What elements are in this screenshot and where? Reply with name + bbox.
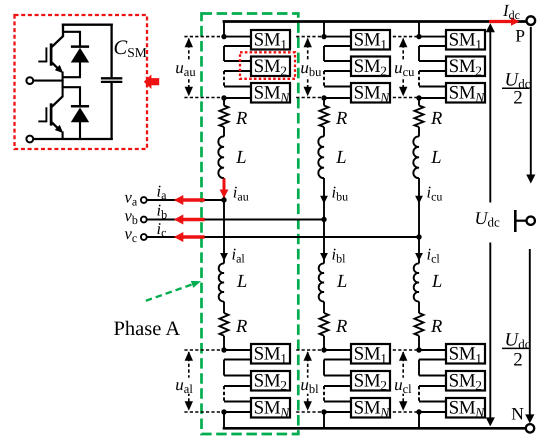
Phase A dashed green frame xyxy=(202,14,299,435)
label u_al xyxy=(175,378,197,394)
label u_bl xyxy=(300,378,322,394)
wire: SM2 terminals arm bu xyxy=(324,60,352,62)
upper half dimension arrow U_dc/2 xyxy=(530,27,532,176)
wire: SM bottom rail xyxy=(33,138,113,140)
node: AC junction phase B xyxy=(321,217,326,222)
diode D1 (upper freewheel diode) xyxy=(63,31,80,33)
terminal P xyxy=(527,16,536,25)
wire: lower leg phase C xyxy=(418,237,420,264)
node: lower arm top junction phase A xyxy=(221,347,226,352)
svg-text:L: L xyxy=(236,272,247,292)
SM block SMN arm bl xyxy=(351,398,390,418)
resistor R lower arm phase B xyxy=(320,313,329,336)
wire: SM1 terminals arm cu xyxy=(419,36,447,38)
inductor L upper arm phase A xyxy=(218,136,224,178)
svg-text:R: R xyxy=(430,317,442,337)
svg-text:R: R xyxy=(235,109,247,129)
node: upper arm top junction phase C xyxy=(416,34,421,39)
inductor L lower arm phase B xyxy=(319,263,324,301)
wire: leg to negative bus phase A xyxy=(223,412,225,429)
wire: SMN terminals arm al xyxy=(224,401,252,403)
SM block SM1 arm cl xyxy=(446,344,485,364)
resistor R lower arm phase C xyxy=(415,313,424,336)
wire: SM2 terminals arm bl xyxy=(324,375,352,377)
wire: leg segment between L and R lower phase C xyxy=(418,302,420,314)
inductor L upper arm phase B xyxy=(318,136,324,178)
resistor R upper arm phase B xyxy=(320,106,329,128)
svg-text:R: R xyxy=(335,317,347,337)
resistor R upper arm phase A xyxy=(220,106,229,128)
phase current arrow i_c (red) xyxy=(174,232,184,242)
SM block SM1 arm bu xyxy=(351,30,390,50)
node: AC junction phase A xyxy=(221,197,226,202)
DC midpoint terminal xyxy=(514,210,517,232)
transistor T2 (lower IGBT) xyxy=(50,103,53,125)
wire: AC line phase C xyxy=(147,236,420,238)
SM block SMN arm bu xyxy=(351,83,390,103)
node: upper arm bottom junction phase A xyxy=(221,95,226,100)
dimension line u_cu xyxy=(393,36,421,38)
SM block SM1 arm bl xyxy=(351,344,390,364)
wire: leg segment between L and R lower phase B xyxy=(323,302,325,314)
wire: AC line phase A xyxy=(147,199,225,201)
svg-text:R: R xyxy=(235,317,247,337)
wire: SM top rail xyxy=(62,24,113,26)
svg-text:L: L xyxy=(336,272,347,292)
resistor R lower arm phase A xyxy=(220,313,229,336)
wire: leg segment between L and R lower phase A xyxy=(223,302,225,314)
wire: SMN terminals arm bl xyxy=(324,401,352,403)
wire: SMN terminals arm cu xyxy=(419,86,447,88)
svg-text:R: R xyxy=(335,109,347,129)
wire: leg to negative bus phase B xyxy=(323,412,325,429)
wire: leg segment to AC node phase B xyxy=(323,178,325,220)
label u_cu xyxy=(394,61,416,77)
wire: SM1 terminals arm cl xyxy=(419,349,447,351)
wire: leg segment above R phase C xyxy=(418,98,420,106)
wire: leg segment between R and L phase A xyxy=(223,127,225,137)
node: upper arm top junction phase A xyxy=(221,34,226,39)
wire: positive DC bus xyxy=(223,20,527,23)
wire: leg segment between R and L phase C xyxy=(418,127,420,137)
svg-text:L: L xyxy=(335,148,346,168)
resistor R upper arm phase C xyxy=(415,106,424,128)
svg-text:2: 2 xyxy=(513,88,523,109)
inductor L lower arm phase A xyxy=(219,263,224,301)
label u_au xyxy=(175,61,197,77)
wire: leg to negative bus phase C xyxy=(418,412,420,429)
SM block SM2 arm cu xyxy=(446,57,485,77)
wire: SM1 terminals arm al xyxy=(224,349,252,351)
arm current arrow i_cl xyxy=(415,253,423,261)
wire: leg segment to lower SM chain phase A xyxy=(223,336,225,350)
svg-text:L: L xyxy=(431,272,442,292)
node: lower arm bottom junction phase C xyxy=(416,409,421,414)
inductor L upper arm phase C xyxy=(413,136,419,178)
wire: upper leg phase C xyxy=(418,21,420,37)
wire: lower leg phase B xyxy=(323,220,325,264)
wire: negative DC bus xyxy=(223,427,526,430)
node: AC junction phase C xyxy=(416,234,421,239)
wire: SM1 terminals arm au xyxy=(224,36,252,38)
red callout arrow to SM2 xyxy=(144,74,159,89)
transistor T1 (upper IGBT) xyxy=(50,43,53,65)
wire: SM2 terminals arm al xyxy=(224,375,252,377)
label u_bu xyxy=(300,61,322,77)
wire: upper leg phase B xyxy=(323,21,325,37)
phase current arrow i_b (red) xyxy=(174,215,184,225)
svg-text:L: L xyxy=(235,148,246,168)
arm current arrow i_bl xyxy=(320,253,328,261)
arm current arrow i_au (red) xyxy=(223,179,226,192)
wire: SM2 terminals arm cl xyxy=(419,375,447,377)
wire: AC line phase B xyxy=(147,219,325,221)
wire: SMN terminals arm au xyxy=(224,86,252,88)
node: lower arm top junction phase B xyxy=(321,347,326,352)
arm current arrow i_al xyxy=(220,253,228,261)
SM block SM2 arm au xyxy=(251,57,290,77)
U_dc dimension line with arrows xyxy=(489,25,491,425)
label u_cl xyxy=(394,378,416,394)
svg-text:N: N xyxy=(511,404,524,424)
node: lower arm top junction phase C xyxy=(416,347,421,352)
SM block SM1 arm cu xyxy=(446,30,485,50)
SM block SMN arm au xyxy=(251,83,290,103)
wire: SM2 terminals arm cu xyxy=(419,60,447,62)
arm current arrow i_bu xyxy=(320,196,328,204)
SM block SM2 arm cl xyxy=(446,371,485,391)
wire: upper leg phase A xyxy=(223,21,225,37)
dimension line u_bu xyxy=(296,36,325,38)
phase current arrow i_a (red) xyxy=(174,195,184,205)
SM block SMN arm cu xyxy=(446,83,485,103)
wire: lower leg phase A xyxy=(223,200,225,264)
dimension line u_cl xyxy=(393,349,421,351)
red dotted highlight frame around SM2 xyxy=(240,52,295,79)
green callout arrow to Phase A frame xyxy=(146,283,196,301)
wire: leg segment to lower SM chain phase B xyxy=(323,336,325,350)
node: upper arm top junction phase B xyxy=(321,34,326,39)
node: upper arm bottom junction phase B xyxy=(321,95,326,100)
wire: SM1 terminals arm bl xyxy=(324,349,352,351)
terminal: SM upper port xyxy=(26,77,33,84)
node: lower arm bottom junction phase A xyxy=(221,409,226,414)
capacitor C_SM xyxy=(110,24,112,78)
wire: leg segment to AC node phase A xyxy=(223,178,225,200)
terminal v_a xyxy=(141,197,147,203)
wire: leg segment above R phase A xyxy=(223,98,225,106)
submodule detail dashed red frame xyxy=(15,15,148,149)
inductor L lower arm phase C xyxy=(414,263,419,301)
wire: SMN terminals arm bu xyxy=(324,86,352,88)
terminal: SM lower port xyxy=(26,136,33,143)
wire: leg segment above R phase B xyxy=(323,98,325,106)
arm current arrow i_cu xyxy=(415,196,423,204)
svg-text:2: 2 xyxy=(513,350,523,371)
SM block SM2 arm al xyxy=(251,371,290,391)
svg-text:P: P xyxy=(515,26,525,46)
SM block SMN arm al xyxy=(251,398,290,418)
node: lower arm bottom junction phase B xyxy=(321,409,326,414)
node wire: SM midpoint xyxy=(63,76,81,78)
terminal N xyxy=(526,424,534,432)
lower half dimension arrow U_dc/2 xyxy=(529,249,531,416)
label U_dc midpoint xyxy=(470,203,502,243)
terminal v_c xyxy=(141,234,147,240)
node: upper arm bottom junction phase C xyxy=(416,95,421,100)
svg-text:Phase A: Phase A xyxy=(114,318,181,340)
svg-text:L: L xyxy=(430,148,441,168)
svg-text:R: R xyxy=(430,109,442,129)
SM block SMN arm cl xyxy=(446,398,485,418)
SM block SM2 arm bu xyxy=(351,57,390,77)
dimension line u_au xyxy=(184,36,225,38)
DC current arrow I_dc (red) xyxy=(489,20,513,23)
SM block SM1 arm al xyxy=(251,344,290,364)
wire: SM1 terminals arm bu xyxy=(324,36,352,38)
terminal v_b xyxy=(141,217,147,223)
dimension line u_bl xyxy=(296,349,325,351)
SM block SM2 arm bl xyxy=(351,371,390,391)
wire: SMN terminals arm cl xyxy=(419,401,447,403)
SM block SM1 arm au xyxy=(251,30,290,50)
diode D2 (lower freewheel diode) xyxy=(79,87,81,106)
wire: SM2 terminals arm au xyxy=(224,60,252,62)
wire: leg segment to AC node phase C xyxy=(418,178,420,237)
wire: leg segment to lower SM chain phase C xyxy=(418,336,420,350)
dimension line u_al xyxy=(184,349,225,351)
wire: leg segment between R and L phase B xyxy=(323,127,325,137)
